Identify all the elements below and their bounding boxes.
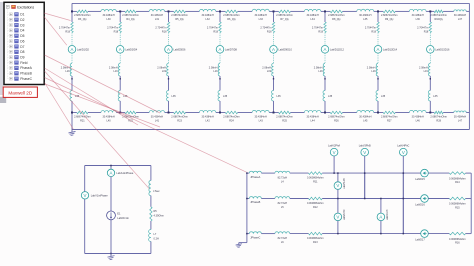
svg-text:2.68674mOhm: 2.68674mOhm (430, 116, 447, 119)
svg-text:2.68674mOhm: 2.68674mOhm (276, 14, 293, 17)
svg-text:2.68674mOhm: 2.68674mOhm (171, 14, 188, 17)
svg-text:30.4384nH: 30.4384nH (307, 116, 319, 119)
svg-text:2.08mH: 2.08mH (157, 66, 166, 69)
svg-text:L35: L35 (223, 95, 228, 98)
svg-text:Maxwell 2D: Maxwell 2D (8, 91, 32, 96)
svg-text:LabID5ID6: LabID5ID6 (174, 48, 187, 51)
svg-text:R18: R18 (213, 30, 218, 33)
svg-text:2.68674mOhm: 2.68674mOhm (171, 116, 188, 119)
svg-text:Excitations: Excitations (17, 5, 34, 9)
svg-text:2.08mH: 2.08mH (314, 66, 323, 69)
svg-text:2.70447m: 2.70447m (59, 27, 70, 30)
svg-text:E1: E1 (117, 212, 121, 216)
svg-text:A: A (377, 47, 380, 52)
svg-text:D9: D9 (20, 55, 24, 59)
svg-text:LabID3ID4: LabID3ID4 (125, 48, 138, 51)
svg-text:0.0608664ohm: 0.0608664ohm (449, 177, 466, 180)
svg-text:0.0608664ohm: 0.0608664ohm (449, 238, 466, 241)
svg-text:R11: R11 (313, 180, 318, 183)
svg-text:R18: R18 (318, 30, 323, 33)
svg-text:LabID16: LabID16 (415, 204, 425, 207)
svg-text:2.70447m: 2.70447m (417, 27, 428, 30)
svg-text:R18: R18 (65, 30, 70, 33)
svg-text:2.08mH: 2.08mH (109, 66, 118, 69)
svg-text:R4_Qty: R4_Qty (126, 18, 135, 21)
svg-text:30.4384nH: 30.4384nH (454, 116, 466, 119)
svg-text:LabID13D14: LabID13D14 (383, 48, 398, 51)
svg-text:L46: L46 (416, 119, 421, 122)
svg-text:L19: L19 (162, 70, 167, 73)
svg-text:R14: R14 (455, 181, 460, 184)
svg-text:2.68674mOhm: 2.68674mOhm (223, 14, 240, 17)
svg-text:L31: L31 (155, 18, 160, 21)
svg-text:JPhaseA: JPhaseA (250, 176, 260, 179)
svg-text:30.4384nH: 30.4384nH (454, 14, 466, 17)
svg-text:D5: D5 (20, 34, 24, 38)
svg-text:2.08mH: 2.08mH (367, 66, 376, 69)
svg-text:LabID9ID10: LabID9ID10 (279, 48, 293, 51)
svg-text:30.4384nH: 30.4384nH (412, 116, 424, 119)
svg-text:D8: D8 (20, 50, 24, 54)
svg-text:LabV2PhA: LabV2PhA (328, 145, 340, 148)
svg-text:LabV4PhC: LabV4PhC (397, 145, 409, 148)
svg-text:2.68674mOhm: 2.68674mOhm (381, 116, 398, 119)
svg-text:2.70447m: 2.70447m (260, 27, 271, 30)
svg-text:L42: L42 (206, 119, 211, 122)
svg-text:A: A (119, 47, 122, 52)
svg-text:2.68674mOhm: 2.68674mOhm (122, 14, 139, 17)
svg-text:L47: L47 (458, 119, 463, 122)
svg-text:2.68674mOhm: 2.68674mOhm (328, 14, 345, 17)
svg-text:D3: D3 (20, 23, 24, 27)
svg-text:2.70447m: 2.70447m (312, 27, 323, 30)
svg-text:L19: L19 (267, 70, 272, 73)
svg-text:A: A (71, 47, 74, 52)
svg-text:30.4384nH: 30.4384nH (412, 14, 424, 17)
svg-text:30.4384nH: 30.4384nH (255, 14, 267, 17)
svg-text:L19: L19 (114, 70, 119, 73)
svg-text:LabV5 AB: LabV5 AB (343, 178, 346, 189)
svg-text:L30: L30 (107, 18, 112, 21)
svg-text:R8_Qty: R8_Qty (332, 18, 341, 21)
svg-text:L40: L40 (107, 119, 112, 122)
svg-text:LabID7ID8: LabID7ID8 (225, 48, 238, 51)
svg-text:LabID1ID2: LabID1ID2 (77, 48, 90, 51)
svg-text:30.4384nH: 30.4384nH (307, 14, 319, 17)
svg-text:L45: L45 (363, 119, 368, 122)
svg-text:V: V (84, 193, 87, 198)
svg-text:JPhaseB: JPhaseB (250, 201, 260, 204)
svg-text:Field: Field (20, 61, 27, 65)
svg-text:L35: L35 (363, 18, 368, 21)
svg-text:R18: R18 (371, 30, 376, 33)
svg-text:D1: D1 (20, 13, 24, 17)
svg-text:2.68674mOhm: 2.68674mOhm (328, 116, 345, 119)
svg-text:R7_Qty: R7_Qty (280, 18, 289, 21)
svg-text:R23: R23 (177, 119, 182, 122)
svg-text:R10Qty: R10Qty (434, 18, 443, 21)
svg-text:0.2H: 0.2H (154, 238, 159, 241)
svg-text:V: V (336, 214, 339, 219)
svg-text:R18: R18 (424, 30, 429, 33)
svg-text:2.08mH: 2.08mH (262, 66, 271, 69)
svg-text:L34: L34 (311, 18, 316, 21)
svg-text:0.0608664ohm: 0.0608664ohm (307, 177, 324, 180)
svg-text:L35: L35 (277, 95, 282, 98)
svg-text:R28: R28 (436, 119, 441, 122)
svg-text:0.0608664ohm: 0.0608664ohm (307, 237, 324, 240)
svg-text:2.70447m: 2.70447m (155, 27, 166, 30)
svg-text:A: A (219, 47, 222, 52)
svg-text:2.70447m: 2.70447m (365, 27, 376, 30)
svg-text:R18: R18 (267, 30, 272, 33)
svg-text:2.68674mOhm: 2.68674mOhm (430, 14, 447, 17)
svg-text:2.70447m: 2.70447m (107, 27, 118, 30)
svg-text:L19: L19 (65, 70, 70, 73)
svg-text:2.68674mOhm: 2.68674mOhm (74, 116, 91, 119)
svg-text:L19: L19 (213, 70, 218, 73)
svg-text:30.4384nH: 30.4384nH (151, 14, 163, 17)
svg-text:PhaseA: PhaseA (20, 66, 32, 70)
svg-text:LabID15D16: LabID15D16 (435, 48, 450, 51)
svg-text:V: V (333, 150, 336, 155)
svg-text:82.73uH: 82.73uH (278, 202, 288, 205)
svg-text:LabID17: LabID17 (415, 239, 425, 242)
svg-text:D6: D6 (20, 39, 24, 43)
svg-text:R26: R26 (334, 119, 339, 122)
svg-text:L36: L36 (416, 18, 421, 21)
svg-text:R3_Qty: R3_Qty (78, 18, 87, 21)
svg-text:30.4384nH: 30.4384nH (255, 116, 267, 119)
svg-text:30.4384nH: 30.4384nH (202, 14, 214, 17)
svg-text:30.4384nH: 30.4384nH (103, 116, 115, 119)
svg-text:L19: L19 (424, 70, 429, 73)
svg-text:L35: L35 (433, 95, 438, 98)
svg-text:D4: D4 (20, 29, 24, 33)
svg-text:L41: L41 (155, 119, 160, 122)
svg-text:LabDC1in: LabDC1in (117, 216, 129, 220)
svg-text:L44: L44 (311, 119, 316, 122)
svg-text:30.4384nH: 30.4384nH (202, 116, 214, 119)
svg-text:LabID11D12: LabID11D12 (330, 48, 344, 51)
svg-text:A: A (429, 47, 432, 52)
svg-text:R12: R12 (313, 206, 318, 209)
svg-text:82.73uH: 82.73uH (278, 237, 288, 240)
svg-text:L37: L37 (458, 18, 463, 21)
svg-text:A: A (272, 47, 275, 52)
svg-text:R13: R13 (313, 241, 318, 244)
svg-text:82.73uH: 82.73uH (278, 177, 288, 180)
svg-text:LabV6 BC: LabV6 BC (343, 209, 346, 220)
svg-text:R18: R18 (114, 30, 119, 33)
svg-text:JPhaseC: JPhaseC (250, 236, 260, 239)
svg-text:0.0608664ohm: 0.0608664ohm (449, 203, 466, 206)
svg-text:LabV3PhB: LabV3PhB (359, 145, 371, 148)
svg-text:R25: R25 (282, 119, 287, 122)
svg-text:R5_Qty: R5_Qty (175, 18, 184, 21)
svg-text:L19: L19 (371, 70, 376, 73)
svg-text:A: A (167, 47, 170, 52)
svg-text:D2: D2 (20, 18, 24, 22)
svg-text:A: A (110, 170, 113, 175)
svg-text:R15: R15 (455, 207, 460, 210)
svg-text:LTsec: LTsec (153, 190, 160, 193)
svg-text:L19: L19 (318, 70, 323, 73)
svg-text:LabID1Ch: LabID1Ch (386, 209, 389, 220)
svg-text:PhaseC: PhaseC (20, 77, 32, 81)
svg-text:30.4384nH: 30.4384nH (103, 14, 115, 17)
svg-text:30.4384nH: 30.4384nH (359, 116, 371, 119)
svg-text:2.08mH: 2.08mH (209, 66, 218, 69)
svg-text:2.68674mOhm: 2.68674mOhm (381, 14, 398, 17)
svg-text:2.68674mOhm: 2.68674mOhm (276, 116, 293, 119)
svg-text:A: A (324, 47, 327, 52)
svg-text:30.4384nH: 30.4384nH (151, 116, 163, 119)
svg-text:R21: R21 (80, 119, 85, 122)
svg-text:R6_Qty: R6_Qty (227, 18, 236, 21)
svg-text:D7: D7 (20, 45, 24, 49)
svg-text:V: V (402, 150, 405, 155)
svg-text:L35: L35 (381, 95, 386, 98)
svg-text:L33: L33 (259, 18, 264, 21)
svg-text:L43: L43 (259, 119, 264, 122)
svg-text:R24: R24 (229, 119, 234, 122)
svg-text:R27: R27 (387, 119, 392, 122)
svg-text:V: V (363, 150, 366, 155)
svg-text:L35: L35 (172, 95, 177, 98)
svg-text:PhaseB: PhaseB (20, 72, 32, 76)
svg-text:A: A (379, 214, 382, 219)
svg-text:2.68674mOhm: 2.68674mOhm (223, 116, 240, 119)
svg-text:2.08mH: 2.08mH (419, 66, 428, 69)
svg-text:30.4384nH: 30.4384nH (359, 14, 371, 17)
svg-text:4.39Ohm: 4.39Ohm (154, 215, 164, 218)
svg-text:LabV1inPhase: LabV1inPhase (91, 193, 108, 197)
svg-text:R9_Qty: R9_Qty (385, 18, 394, 21)
svg-text:R16: R16 (455, 242, 460, 245)
svg-text:L35: L35 (328, 95, 333, 98)
svg-text:LabA1inPhase: LabA1inPhase (116, 171, 133, 175)
svg-text:2.68674mOhm: 2.68674mOhm (74, 14, 91, 17)
svg-text:R18: R18 (162, 30, 167, 33)
svg-text:2.70447m: 2.70447m (207, 27, 218, 30)
svg-text:L32: L32 (206, 18, 211, 21)
svg-text:0.0608664ohm: 0.0608664ohm (307, 202, 324, 205)
svg-text:V: V (336, 183, 339, 188)
svg-text:LabID15: LabID15 (415, 178, 425, 181)
